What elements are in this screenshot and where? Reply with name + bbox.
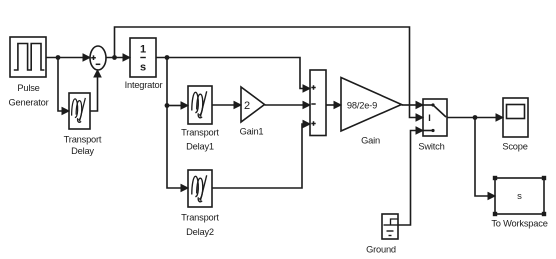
block Integrator 1/s — [130, 38, 156, 77]
wire feedback to Switch control: up over the top — [115, 27, 417, 118]
wire Gain1 to Sum2 middle input — [265, 102, 311, 109]
svg-text:s: s — [517, 191, 522, 202]
label Transport Delay1 — [181, 128, 219, 152]
block Transport Delay — [69, 93, 90, 129]
wire Switch to Scope — [447, 114, 503, 121]
svg-text:Transport: Transport — [64, 135, 102, 145]
svg-text:Transport: Transport — [181, 213, 219, 223]
label Transport Delay — [64, 135, 102, 157]
svg-text:98/2e-9: 98/2e-9 — [347, 101, 377, 111]
sum junction S1 — [90, 46, 106, 70]
sum block Sum2 (+ - +) — [310, 70, 326, 136]
wire Transport Delay1 to Gain1 — [212, 102, 241, 109]
block Switch — [423, 99, 447, 136]
node junction Sum output — [112, 55, 117, 60]
wire branch down to Transport Delay1 and Delay2 — [167, 58, 188, 192]
wire Sum2 to Gain — [326, 102, 341, 109]
svg-text:2: 2 — [244, 100, 250, 112]
svg-text:s: s — [140, 62, 146, 74]
wire Ground up to Switch input 3 — [398, 127, 423, 225]
block Scope — [503, 98, 528, 137]
svg-text:To Workspace: To Workspace — [491, 219, 547, 229]
label Transport Delay2 — [181, 213, 219, 238]
node junction on PG output — [56, 55, 61, 60]
block Transport Delay2 — [188, 170, 212, 207]
svg-text:Delay: Delay — [71, 146, 94, 156]
block Pulse Generator — [10, 37, 46, 77]
label Pulse Generator — [8, 83, 48, 108]
svg-text:Transport: Transport — [181, 128, 219, 138]
wire Sum to Integrator — [106, 54, 130, 61]
svg-text:Scope: Scope — [502, 142, 527, 152]
node junction at Transport Delay1 branch — [165, 103, 170, 108]
wire Transport Delay2 to Sum2 bottom input — [212, 121, 310, 189]
wire Integrator output to Sum2 plus input (top) — [156, 58, 310, 93]
node junction Switch output — [473, 115, 478, 120]
svg-text:Ground: Ground — [366, 245, 396, 255]
wire Transport Delay output up to Sum minus input — [90, 70, 101, 111]
node junction Integrator output — [165, 55, 170, 60]
gain Gain1 — [241, 87, 265, 122]
wire branch down to To Workspace — [475, 118, 495, 200]
svg-text:Gain1: Gain1 — [240, 127, 264, 137]
wire Gain to Switch input 1 — [402, 102, 424, 109]
svg-text:Delay2: Delay2 — [186, 227, 214, 237]
svg-text:Pulse: Pulse — [17, 83, 39, 93]
wire Pulse Generator to Sum — [46, 54, 90, 61]
selection handles To Workspace — [493, 176, 546, 216]
svg-text:Switch: Switch — [418, 142, 444, 152]
block Ground — [382, 214, 398, 239]
block To Workspace (selected) — [495, 178, 544, 214]
svg-text:Generator: Generator — [8, 98, 48, 108]
svg-text:Integrator: Integrator — [125, 80, 163, 90]
wire branch down to Transport Delay — [58, 58, 69, 115]
block Transport Delay1 — [188, 86, 212, 124]
svg-text:Gain: Gain — [361, 136, 380, 146]
gain Gain 98/2e-9 — [341, 78, 402, 132]
svg-text:Delay1: Delay1 — [186, 142, 214, 152]
svg-text:1: 1 — [140, 44, 146, 56]
